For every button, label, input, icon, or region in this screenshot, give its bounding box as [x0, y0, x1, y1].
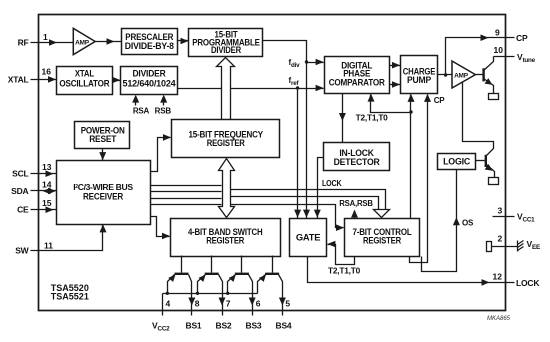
logic box [438, 154, 476, 170]
svg-text:1: 1 [43, 32, 48, 42]
wire Vtune pin 10 [494, 56, 515, 58]
wire CE pin 15 [31, 209, 57, 211]
svg-text:CP: CP [516, 33, 528, 43]
svg-text:REGISTER: REGISTER [207, 138, 246, 148]
junction dot emitter T2 [196, 292, 199, 295]
svg-text:11: 11 [44, 241, 53, 251]
arrowhead fdiv down into gate [303, 210, 310, 218]
transistor T3 collector to pin 6 [249, 275, 253, 316]
wire power-on reset to bus receiver [102, 149, 104, 161]
arrowhead fdiv into comparator [316, 59, 324, 66]
transistor T2 collector to pin 7 [219, 275, 223, 316]
wire SDA pin 14 [31, 190, 57, 192]
svg-text:DETECTOR: DETECTOR [334, 157, 381, 167]
VCC2 rail [163, 294, 258, 316]
15-bit frequency register box [172, 120, 280, 158]
arrowhead T2T1T0 left into gate [327, 241, 335, 248]
svg-text:15: 15 [42, 198, 52, 208]
amplifier AMP1 (RF) [73, 28, 95, 54]
arrowhead pin 7 down [219, 298, 226, 306]
pin 2 VEE hatch symbol [518, 241, 524, 252]
transistor Q1 collector to Vtune pin 10 [484, 57, 494, 71]
svg-text:COMPARATOR: COMPARATOR [329, 77, 386, 87]
svg-text:DIVIDER: DIVIDER [211, 45, 242, 55]
svg-text:RF: RF [18, 37, 29, 47]
wire RSA arrow below divider [135, 99, 137, 106]
wire bus tap wrapping into control register left [231, 205, 344, 228]
transistor T2 base bar [205, 273, 219, 275]
transistor T4 base wire [272, 256, 274, 273]
wire xtal oscillator to divider [113, 80, 121, 82]
arrowhead OS up mid line [453, 217, 460, 225]
transistor T4 base bar [265, 273, 279, 275]
svg-text:T2,T1,T0: T2,T1,T0 [356, 113, 389, 122]
wire XTAL input pin 16 [31, 79, 57, 81]
svg-text:14: 14 [42, 180, 52, 190]
svg-text:LOCK: LOCK [516, 278, 540, 288]
svg-text:TSA5521: TSA5521 [51, 292, 89, 302]
wire bus receiver to frequency register [150, 138, 171, 172]
svg-text:REGISTER: REGISTER [363, 236, 402, 246]
wire SCL pin 13 [31, 173, 57, 175]
resistor R1 [489, 94, 499, 100]
svg-text:BS4: BS4 [276, 321, 292, 331]
wire logic to transistor Q2 base [476, 160, 485, 162]
arrowhead XTAL into oscillator [48, 76, 56, 83]
transistor T4 collector to pin 5 [279, 275, 283, 316]
hollow arrowhead into 7-bit control register [374, 210, 390, 218]
arrowhead CP pin 9 out [481, 34, 489, 41]
arrowhead into band switch register [162, 233, 170, 240]
arrowhead fref down into gate [294, 210, 301, 218]
svg-text:REGISTER: REGISTER [206, 236, 245, 246]
svg-text:XTAL: XTAL [8, 75, 29, 85]
svg-text:BS1: BS1 [186, 321, 202, 331]
wire T2,T1,T0 from control register top to comparator and charge pump [371, 95, 411, 219]
transistor T2 emitter [198, 275, 206, 294]
transistor T3 emitter arrow [229, 275, 236, 282]
xtal oscillator box [57, 67, 113, 95]
wire pin 3 VCC1 stub [493, 216, 515, 218]
arrowhead RSA,RSB up from control register [351, 210, 358, 218]
arrowhead CE into receiver [46, 206, 54, 213]
svg-text:5: 5 [285, 299, 290, 309]
svg-text:T2,T1,T0: T2,T1,T0 [328, 266, 361, 275]
arrowhead SCL into receiver [46, 170, 54, 177]
wire gate output to LOCK pin 12 [308, 256, 515, 283]
transistor T1 collector to pin 8 [189, 275, 192, 316]
svg-text:6: 6 [256, 299, 261, 309]
wire bus receiver to band switch register [150, 217, 170, 237]
arrowhead prescaler to divider [181, 38, 189, 45]
transistor Q2 emitter [487, 165, 495, 178]
junction dot emitter T1 [166, 292, 169, 295]
resistor R2 [489, 178, 499, 185]
arrowhead T-net up into charge pump [408, 94, 415, 102]
chip outer border [39, 15, 506, 311]
wire fref: divider to phase comparator and down to gate [178, 88, 324, 90]
transistor T4 emitter [258, 275, 266, 294]
svg-text:LOCK: LOCK [322, 179, 342, 188]
charge pump box [401, 56, 438, 94]
transistor T1 emitter [168, 275, 175, 294]
arrowhead RF into amp [49, 39, 57, 46]
transistor T1 base wire [181, 256, 183, 273]
transistor T3 base wire [241, 256, 243, 273]
digital phase comparator box [325, 57, 390, 94]
transistor Q1 emitter arrow [485, 78, 493, 85]
wire comparator to charge pump lower [390, 84, 401, 86]
i2c/3-wire bus receiver box [57, 161, 151, 225]
svg-text:OS: OS [462, 219, 474, 228]
junction dot emitter T3 [226, 292, 229, 295]
junction dot fref [296, 86, 299, 89]
hollow bus double arrow frequency register to band switch register [219, 159, 235, 218]
svg-text:PUMP: PUMP [407, 75, 431, 85]
svg-text:RSA: RSA [133, 107, 150, 116]
transistor Q2 emitter arrow [485, 164, 493, 171]
divider 512/640/1024 box [121, 67, 178, 95]
svg-text:XTAL: XTAL [75, 69, 95, 79]
transistor Q1 base bar [482, 68, 484, 81]
transistor T3 emitter [228, 275, 236, 294]
svg-text:10: 10 [494, 45, 504, 55]
transistor T1 base bar [175, 273, 189, 275]
svg-text:OSCILLATOR: OSCILLATOR [59, 78, 110, 88]
arrowhead POR down into receiver [99, 152, 106, 160]
svg-text:BS2: BS2 [216, 321, 232, 331]
wire OS from control register bottom to logic [422, 170, 457, 272]
transistor T3 base bar [235, 273, 249, 275]
arrowhead SDA right [48, 188, 56, 195]
arrowhead oscillator to divider [112, 77, 120, 84]
bus lines left of vertical shaft [150, 186, 222, 205]
pin 2 resistor box [487, 242, 492, 252]
svg-text:9: 9 [495, 28, 500, 38]
svg-text:7: 7 [226, 299, 231, 309]
svg-text:GATE: GATE [296, 232, 321, 242]
svg-text:RECEIVER: RECEIVER [83, 192, 124, 202]
wire AMP2 output to transistor Q1 base [476, 74, 483, 76]
power-on reset box [75, 122, 130, 149]
gate box [290, 219, 327, 257]
arrowhead amp to prescaler [107, 38, 115, 45]
hollow bus shaft frequency register to programmable divider [217, 58, 235, 121]
svg-text:12: 12 [493, 272, 503, 282]
svg-text:AMP: AMP [454, 72, 469, 79]
transistor T4 emitter arrow [259, 275, 266, 282]
svg-text:RSA,RSB: RSA,RSB [339, 199, 373, 208]
arrowhead RSB up [160, 95, 167, 103]
arrowhead T-net up into comparator [368, 94, 375, 102]
svg-text:DIVIDER: DIVIDER [133, 69, 167, 79]
arrowhead pin 5 down [279, 298, 286, 306]
wire phase comparator to in-lock detector [342, 93, 344, 143]
wire RSB arrow below divider [163, 99, 165, 106]
15-bit programmable divider box [189, 29, 263, 57]
arrowhead lock down into gate [314, 210, 321, 218]
svg-text:CP: CP [434, 96, 446, 105]
arrowhead SDA left [43, 188, 51, 195]
svg-text:SDA: SDA [11, 186, 28, 196]
svg-text:16: 16 [42, 67, 52, 77]
wire SW pin 11 to bus receiver [31, 225, 103, 251]
svg-text:CE: CE [17, 205, 29, 215]
junction dot charge pump output [444, 73, 447, 76]
transistor T1 emitter arrow [168, 275, 175, 282]
transistor T2 base wire [211, 256, 213, 273]
arrowhead comparator down to in-lock (mid line) [339, 113, 346, 121]
arrowhead pin 6 down [249, 298, 256, 306]
wire AMP feedback to tuning transistor [463, 83, 494, 156]
svg-text:3: 3 [498, 206, 503, 216]
7-bit control register box [345, 219, 420, 257]
bus lines right of shaft to 7-bit control register hollow arrow [231, 190, 386, 210]
svg-text:13: 13 [42, 162, 52, 172]
arrowhead LOCK pin 12 out [482, 279, 490, 286]
prescaler box [122, 29, 178, 55]
svg-text:2: 2 [498, 234, 503, 244]
wire in-lock detector output LOCK down to gate [318, 158, 324, 219]
wire charge pump output to AMP and CP pin 9 [438, 38, 515, 75]
wire T2,T1,T0 from control register bottom to gate [328, 245, 355, 265]
4-bit band switch register box [171, 219, 281, 257]
amplifier AMP2 (tuning) [452, 61, 475, 88]
arrowhead CP net up into charge pump [424, 94, 431, 102]
svg-text:MKA865: MKA865 [487, 316, 511, 322]
arrowhead fref into comparator [316, 85, 324, 92]
svg-text:8: 8 [195, 299, 200, 309]
transistor Q1 emitter [484, 79, 494, 94]
svg-text:LOGIC: LOGIC [443, 157, 471, 167]
transistor Q2 base bar [485, 155, 487, 167]
arrowhead bus wrap into control register [336, 224, 344, 231]
wire fdiv: programmable divider to phase comparator and down to gate [263, 41, 307, 219]
svg-text:512/640/1024: 512/640/1024 [123, 78, 176, 88]
arrowhead comparator to charge pump lower [392, 81, 400, 88]
arrowhead pin 8 down [188, 298, 195, 306]
wire AMP to prescaler [96, 41, 122, 43]
svg-text:SCL: SCL [12, 169, 28, 179]
arrowhead into frequency register [163, 134, 171, 141]
wire comparator to charge pump upper [390, 65, 401, 67]
svg-text:RESET: RESET [89, 134, 117, 144]
wire prescaler to programmable divider [178, 40, 189, 42]
junction dot fdiv [305, 60, 308, 63]
svg-text:RSB: RSB [155, 107, 172, 116]
arrowhead comparator to charge pump upper [392, 62, 400, 69]
svg-text:4: 4 [166, 299, 171, 309]
arrowhead SW up into receiver [100, 224, 107, 232]
in-lock detector box [324, 143, 390, 171]
wire RSA,RSB arrow above control register [354, 211, 356, 219]
wire CP from control register bottom to charge pump [410, 95, 428, 263]
transistor T2 emitter arrow [199, 275, 206, 282]
junction dot T-net [409, 110, 412, 113]
wire RF input pin 1 [31, 42, 74, 44]
arrowhead RSA up [132, 95, 139, 103]
svg-text:SW: SW [15, 246, 29, 256]
svg-text:AMP: AMP [75, 39, 90, 46]
wire pin 2 VEE [492, 246, 518, 248]
svg-text:DIVIDE-BY-8: DIVIDE-BY-8 [125, 41, 174, 51]
svg-text:BS3: BS3 [246, 321, 262, 331]
